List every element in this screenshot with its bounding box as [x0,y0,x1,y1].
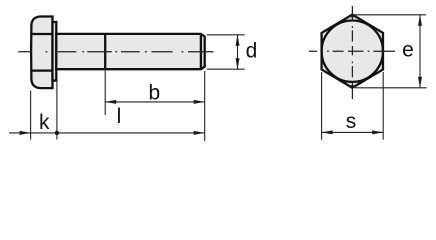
arrow e bottom [418,77,422,88]
extension line d top [207,34,245,36]
dimension line d [237,35,239,69]
centerline end view vertical [351,6,353,99]
extension line e top [354,14,426,16]
head facet line lower [31,69,52,71]
arrow s left [322,130,333,134]
head facet line upper [31,33,52,35]
svg-text:b: b [148,82,160,105]
arrow l right [194,131,205,135]
svg-text:e: e [402,39,414,62]
arrow s right [372,130,383,134]
extension line thread start [104,70,106,115]
extension line head left [30,91,32,140]
arrow d bottom [236,58,240,69]
extension line e bottom [355,87,427,89]
arrow e top [418,15,422,26]
chamfer circle [322,21,383,82]
arrow k [20,131,31,135]
hex head end view [322,15,383,88]
arrow d top [236,35,240,46]
extension line bearing face [56,82,58,140]
washer face [53,22,57,81]
arrow b right [194,100,205,104]
bolt head side view [31,17,52,89]
thread boundary line [104,34,106,69]
hexagon bottom vertex fillet [348,85,358,89]
hexagon top vertex fillet [348,14,358,18]
svg-text:k: k [39,111,50,134]
extension line shank end [204,71,206,141]
dimension line k and l [9,132,205,134]
svg-text:l: l [117,105,122,128]
extension line s left [321,72,323,140]
arrow b left [105,100,116,104]
svg-text:d: d [246,40,258,63]
dimension line e [419,15,421,88]
dimension line b [105,101,205,103]
shank end chamfer line [200,34,202,69]
shank [56,34,204,69]
junction dot k/l [55,131,59,135]
svg-text:s: s [346,110,357,133]
centerline end view horizontal [309,50,395,52]
extension line s right [382,72,384,140]
dimension line s [322,131,384,133]
extension line d bottom [207,68,245,70]
centerline side view [18,51,213,53]
